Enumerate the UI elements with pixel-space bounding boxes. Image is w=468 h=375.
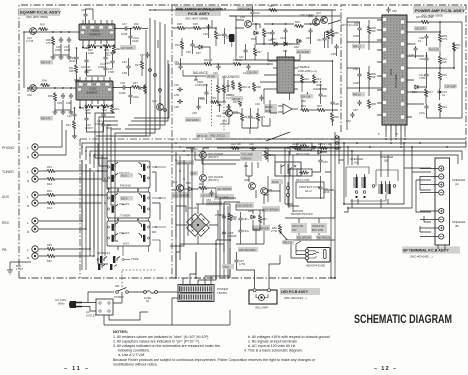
svg-text:R06 47K: R06 47K [41,118,51,121]
terminal T7 [439,225,444,230]
value label psu4 [316,235,332,240]
svg-text:R21: R21 [47,165,52,169]
PSU top rail parts: cap C59 [317,36,327,42]
value label pre3 [206,74,219,79]
svg-text:AUX: AUX [123,242,129,246]
capacitor C06 vertical [57,93,65,105]
svg-text:C17: C17 [122,22,127,26]
capacitor C48 [331,44,339,56]
transistor Q10 lower left [172,180,183,191]
svg-text:R45: R45 [262,218,267,221]
svg-text:R55: R55 [334,32,339,35]
boxed resistor R04 [296,169,312,182]
ground sym eq fb2 [72,134,77,138]
terminal stub wires [420,169,439,237]
svg-text:10/25: 10/25 [119,91,126,95]
LED pcb box [249,289,277,304]
bridge label [188,206,225,217]
resistor R06 left of IC lower [367,71,376,81]
balance control VR01 [183,71,214,87]
label TR01 [214,194,234,200]
EQ junction dots chain1 [23,28,131,49]
value label pa1 [414,26,427,31]
resistor R39 loudness tap [210,96,220,104]
svg-text:TAPE: TAPE [131,257,139,261]
svg-text:C29: C29 [186,50,191,54]
speaker A terminals label [452,178,465,186]
svg-text:Q07: Q07 [316,11,321,15]
EQ/AMP PCB assembly dash-dot border [19,5,338,278]
gray label left of Q04 [190,148,198,153]
selector AUX box [107,221,150,246]
svg-text:4. This is a basic schematic: 4. This is a basic schematic diagram. [244,349,303,353]
terminal T4 [439,190,444,195]
svg-text:0.1: 0.1 [442,93,446,97]
AC voltage label [55,298,66,306]
svg-text:C10: C10 [409,53,414,57]
svg-text:R10: R10 [102,108,107,112]
svg-text:C55 2200/35: C55 2200/35 [237,204,252,208]
svg-text:R31: R31 [218,33,223,37]
resistor R06 vertical [48,92,57,102]
speaker protect relay RY01 [275,162,301,176]
filter cap C50 [222,214,237,221]
SP terminal PCB label box [402,247,460,259]
selector TAPE cluster [97,252,139,270]
AUX input resistors R23 R24 [46,189,56,197]
PSU top rail parts: res R53 [268,5,278,12]
value label hp [282,240,294,245]
svg-text:(A): (A) [354,161,358,165]
svg-text:d. AC input at 120 volts 60 H: d. AC input at 120 volts 60 Hz [248,344,296,348]
resistor R37 [222,84,231,97]
ground stubs under input network [53,44,69,55]
svg-text:EQ/AMP P.C.B. ASS'Y: EQ/AMP P.C.B. ASS'Y [20,10,61,15]
preamp input coupling caps [174,83,183,109]
svg-text:C39: C39 [323,161,328,164]
svg-text:56K: 56K [371,29,376,33]
loudness OFF switch arrow [217,104,222,118]
resistor R34 [326,30,335,40]
svg-text:R41: R41 [244,115,249,119]
svg-text:100P: 100P [64,48,70,52]
svg-text:Because Fisher products are su: Because Fisher products are subject to c… [113,358,316,362]
vertical trunk bus left of divider: wire 1 [96,18,150,136]
electrolytic C44 [280,28,288,40]
cap C07 left low [353,100,362,112]
svg-text:C48: C48 [331,52,336,56]
resistor R10 [100,104,110,112]
capacitor C32 under loudness [222,104,231,115]
wire from lamp cap up [236,252,238,270]
volume feed wires [195,152,252,182]
resistor R09 [102,44,112,55]
svg-text:220: 220 [442,60,447,64]
volume pot symbols [244,162,258,172]
svg-text:D09: D09 [248,210,253,213]
boxed resistor R02 [296,143,312,156]
resistor R08 left low [367,99,376,109]
svg-text:47/50: 47/50 [419,76,426,80]
power transformer T01 [178,285,214,302]
filter cap C52 [222,230,237,238]
svg-text:R18: R18 [317,104,322,108]
svg-text:D02: D02 [294,45,299,49]
svg-text:C05 Q-DEN: C05 Q-DEN [238,8,252,11]
svg-text:R16: R16 [134,22,139,26]
svg-text:R53: R53 [269,5,274,8]
svg-text:56K: 56K [371,75,376,79]
power switch dashed link [122,270,156,287]
electrolytic C11 right [419,72,429,80]
resistor cluster row C tone [300,74,339,122]
svg-text:NJM4557: NJM4557 [86,91,98,95]
svg-text:R51: R51 [138,88,143,91]
svg-text:D05: D05 [186,181,191,185]
resistor R09 right [438,33,447,43]
svg-text:C57: C57 [140,54,145,57]
cap C04 100/10 label [200,193,216,198]
svg-text:C25: C25 [203,32,208,36]
wires right of IC01 [113,29,149,69]
resistor R15 [438,71,447,81]
svg-text:R39: R39 [211,96,216,100]
value label pa2 [428,47,441,52]
top rail junction dots [149,9,253,11]
svg-text:a. Use a V.T.V.M.: a. Use a V.T.V.M. [118,353,145,357]
ground sym chain1 c [67,55,72,59]
main signal bus wire 1 to speaker terminals [82,143,466,155]
PSU top extra: res R47 [253,47,262,57]
svg-text:4.7/16: 4.7/16 [26,39,34,43]
regulator transistor Q07 [316,11,327,23]
svg-text:C54: C54 [206,198,211,202]
svg-text:C33: C33 [200,97,205,101]
preamp misc resistor cluster row A [203,58,251,75]
PB R jack [27,253,38,260]
speaker B label [380,155,393,163]
PSU top extra: diode D11 [283,42,289,53]
wires power supply lower [256,182,335,240]
resistor network bottom: R42 [291,223,307,233]
resistor R12 vertical [66,120,76,130]
value label psu3 [296,235,312,240]
cap C62 below IC left [346,112,355,123]
divider between EQ and preamp blocks [171,5,173,278]
PSU vertical risers to bottom border [176,248,230,278]
junction dots row1 [208,27,217,29]
LED pcb assy label box [280,288,320,300]
svg-text:R27: R27 [135,63,140,67]
headphone feed wires [280,232,305,258]
bridge rectifier D01-D04 [184,211,212,239]
supply rail label [341,23,359,27]
op-amp IC01 (equalizer, upper) [79,24,115,40]
resistor R41 [240,112,249,122]
value label pa3 [444,84,457,89]
extra bus wire 5 [216,138,466,140]
capacitor C12 [84,116,93,130]
wire pb L to bus [39,168,90,249]
svg-text:100P: 100P [353,81,359,85]
svg-text:R17: R17 [428,90,433,94]
gray label mid2 [176,160,194,165]
speaker bus junction dots [343,142,413,209]
svg-text:R33: R33 [175,43,180,47]
terminal T1 [439,166,444,171]
svg-text:C49: C49 [255,12,260,15]
svg-text:SP TERMINAL P.C.B ASS'Y: SP TERMINAL P.C.B ASS'Y [403,249,449,253]
svg-text:R14 10K: R14 10K [301,96,311,99]
left rail wire power amp [347,18,382,130]
power switch S01 [114,284,128,299]
junction dots R input run [54,87,72,89]
svg-text:10/25: 10/25 [132,39,139,43]
svg-text:R63 PROVEN: R63 PROVEN [317,237,332,240]
regulator transistor Q09 [261,188,273,195]
wire pb R to bus [39,172,94,256]
trunk cap C57 [140,52,150,58]
svg-text:(36C-400-0194…): (36C-400-0194…) [284,296,307,300]
resistor R30 vertical [262,28,271,38]
svg-text:R05 4.7 1W: R05 4.7 1W [318,142,332,146]
label C55 [236,202,254,208]
svg-text:C104: C104 [191,174,197,176]
terminal T6 [439,217,444,222]
cap C19 column [318,185,329,194]
svg-text:TREBLE: TREBLE [298,65,310,69]
speaker terminal strip [435,158,450,245]
svg-text:1 CKT: 1 CKT [16,267,24,271]
cap C35 [192,104,201,115]
loudness mechanical link dashed [223,84,225,131]
wire tuner R to bus [39,178,102,180]
chassis ground lug [7,262,31,274]
cap C39 column [318,158,328,164]
cap C31 balance feed [174,60,183,70]
electret detector symbol [226,34,235,47]
resistor R27 [135,60,144,70]
op-amp U2 triangle [278,104,298,114]
svg-text:C47: C47 [239,56,244,59]
svg-text:R47: R47 [257,51,262,54]
svg-text:0.1: 0.1 [418,39,422,43]
value label pa5 [352,92,365,97]
svg-text:20/10: 20/10 [69,59,76,63]
svg-text:R22 10K: R22 10K [231,142,241,146]
bundle wire 5 [111,129,121,205]
svg-text:C62: C62 [346,119,351,123]
label box Q-pair [208,132,230,138]
trunk wire 2 [121,20,155,133]
TUNER input resistors R21 R22 [46,165,56,173]
resistor R05 vertical [46,36,55,46]
transistor Q05 [200,175,224,182]
IC pin number boxes left [383,18,387,117]
svg-text:R29: R29 [193,22,198,26]
svg-text:R23: R23 [47,189,52,193]
transformer secondary wires into bridge [176,204,230,248]
svg-text:Q02 2SA733: Q02 2SA733 [177,162,192,165]
IC02 pins top [80,77,110,81]
svg-text:modifications without notice.: modifications without notice. [113,363,158,367]
terminal T5 [439,208,444,213]
IC01 pins top [83,20,112,24]
cap C33 [200,90,209,101]
trunk res R51 [138,84,147,94]
REC R jack [27,226,38,234]
PSU filter caps bank [238,216,249,222]
svg-text:OFF: OFF [217,115,222,118]
svg-text:POWER AMP P.C.B. ASS'Y: POWER AMP P.C.B. ASS'Y [415,8,465,13]
cap C15 bottom right [419,104,429,115]
capacitor C05 vertical [55,37,63,52]
gray label mid1 [185,117,201,122]
preamp-powamp coupling parts [230,142,332,160]
svg-text:BROWN PROVEN: BROWN PROVEN [291,212,313,216]
LED feed wires [236,255,280,289]
svg-text:S01: S01 [115,284,120,288]
resistor R11 vertical [69,64,78,74]
svg-text:ON▶OFF: ON▶OFF [119,203,130,206]
svg-text:R08: R08 [371,102,376,106]
transistor Q13 top right [308,15,319,25]
preamp/power supply PCB label box [175,6,227,21]
AUX L jack [27,192,38,199]
power trans label [217,287,228,295]
svg-text:c. No signals at input termin: c. No signals at input terminals [248,340,297,344]
label box top PSU [237,6,253,11]
capacitor C21 [105,50,115,57]
svg-text:(A): (A) [455,182,459,186]
PSU top rail parts: cap C49 [250,10,260,16]
svg-text:C21: C21 [105,53,110,57]
svg-text:C05: C05 [354,21,359,25]
svg-text:Q08: Q08 [244,178,249,182]
speaker B terminals label [452,220,465,228]
EQ/AMP PCB label box [19,8,61,19]
bottom border junction dots [175,277,336,279]
resistor R01 [38,23,48,31]
svg-text:C28: C28 [174,105,179,109]
AC wires to switch [82,292,122,311]
TUNER R jack [27,176,38,183]
svg-text:R25: R25 [47,243,52,247]
svg-text:R04 1K: R04 1K [353,46,361,49]
svg-text:R06 1K: R06 1K [353,94,361,97]
svg-text:POWER: POWER [114,295,124,299]
cap C10 right of IC small [409,46,418,57]
svg-text:(36C-403-0492…): (36C-403-0492…) [410,255,433,259]
junction dots power amp [426,21,455,93]
extra gray label PSU2 [238,247,258,252]
svg-text:D802 2SC22: D802 2SC22 [209,134,225,138]
svg-text:P.C.B. ASS'Y: P.C.B. ASS'Y [188,12,210,16]
svg-text:BASS: BASS [265,105,273,109]
wire EQ out to trunk [129,40,161,118]
svg-text:C06: C06 [353,67,358,71]
transistor Q02 [27,85,36,97]
svg-text:C02: C02 [27,93,32,97]
cap C27 [222,32,231,38]
junction dots input run [52,31,70,33]
svg-text:SET BAL(N): SET BAL(N) [97,252,110,255]
bridge wires [176,204,224,278]
svg-text:C35: C35 [192,111,197,115]
svg-text:b. All voltages ±10% with res: b. All voltages ±10% with respect to cha… [248,335,330,339]
AUX R jack [27,200,38,208]
svg-text:R57 2.2K: R57 2.2K [197,135,208,138]
trunk wire 4 [128,24,165,125]
resistor R50 headphone [271,224,282,234]
capacitor C13 [98,55,108,69]
label LED driver [252,225,270,231]
value label eq2 [40,116,53,121]
selector sub-assembly border jog [80,139,341,278]
components right of IC01: capacitor C17 [121,22,129,36]
left bus verticals extended [82,143,108,270]
svg-text:R40: R40 [232,215,237,219]
power amp PCB label box [413,6,465,18]
terminal T3 [439,182,444,187]
left bus junction dots [81,170,99,257]
svg-text:R46: R46 [199,182,204,186]
svg-text:(B): (B) [455,224,459,228]
svg-text:C15+: C15+ [419,111,426,115]
fuse F02 symbol [287,182,290,202]
svg-text:C08: C08 [66,101,71,105]
svg-text:D07: D07 [196,51,201,55]
op-amp IC02 (equalizer, lower) [76,81,113,100]
svg-text:C10: C10 [67,114,72,118]
svg-text:2-50K(MN): 2-50K(MN) [195,83,208,87]
extra trunk wire 7 [134,64,169,118]
svg-text:100K: 100K [85,111,91,115]
wire preamp to power amp row 1 [186,147,341,149]
svg-text:C18: C18 [120,81,125,85]
power amp PCB dash-dot border [341,5,466,150]
svg-text:R14: R14 [316,77,321,81]
diode D07 [196,45,204,55]
label under IC [378,132,398,136]
test point label TP01 [222,264,234,269]
svg-text:PB: PB [2,248,7,252]
svg-text:R26: R26 [47,259,52,263]
svg-text:R12: R12 [304,77,309,81]
svg-text:C38: C38 [334,102,339,106]
terminal T2 [439,174,444,179]
resistor network mid row B [233,82,264,107]
speaker section enclosure wire [335,132,339,164]
AC plug [69,301,82,308]
ground sym eq fb [74,78,79,82]
wire output top [412,22,440,34]
svg-text:C36: C36 [322,94,327,98]
svg-text:BALANCE: BALANCE [193,71,208,75]
svg-text:(FRONT): (FRONT) [208,155,219,159]
svg-text:SCHEMATIC DIAGRAM: SCHEMATIC DIAGRAM [354,314,452,326]
svg-text:NJM4557: NJM4557 [89,33,101,37]
speaker wiring loops [339,160,431,232]
svg-text:C20+: C20+ [133,95,140,99]
cap C25 [203,24,211,36]
svg-text:R03: R03 [40,23,45,27]
svg-text:R24: R24 [47,206,52,210]
svg-text:TRANS: TRANS [217,291,227,295]
preamp/eq block bottom border [19,277,336,279]
cap C06 left of IC lower [353,67,362,85]
PSU top rail wire [150,9,336,11]
